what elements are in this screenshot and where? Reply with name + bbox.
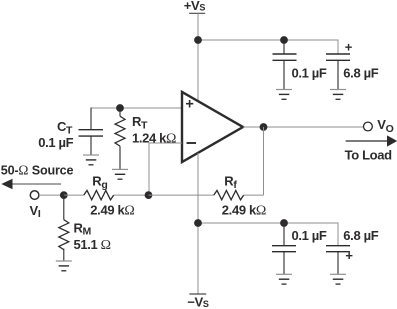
arrow to load (pointing right)	[346, 135, 397, 146]
svg-text:0.1 µF: 0.1 µF	[38, 135, 73, 150]
svg-text:6.8 µF: 6.8 µF	[343, 66, 378, 81]
op-amp U1	[182, 92, 243, 162]
resistor Rf 2.49 k	[214, 190, 244, 199]
capacitor C3 0.1 uF (bottom)	[272, 223, 296, 274]
node junction bottom rail / C3	[280, 219, 288, 227]
wire top rail	[198, 40, 338, 54]
capacitor C1 0.1 uF (top)	[273, 40, 297, 90]
-VS supply symbol	[187, 294, 209, 309]
svg-text:+: +	[345, 39, 353, 54]
svg-text:0.1 µF: 0.1 µF	[292, 228, 327, 243]
wire op-amp negative supply down to -VS	[197, 153, 199, 294]
resistor RM 51.1	[59, 195, 69, 261]
svg-text:To Load: To Load	[345, 147, 393, 162]
svg-text:6.8 µF: 6.8 µF	[343, 228, 378, 243]
wire inverting input	[149, 143, 182, 195]
svg-text:51.1 Ω: 51.1 Ω	[74, 237, 112, 253]
resistor Rg 2.49 k	[84, 190, 114, 199]
svg-text:0.1 µF: 0.1 µF	[292, 66, 327, 81]
terminal VO (open circle)	[364, 122, 373, 131]
svg-text:+VS: +VS	[184, 0, 206, 13]
wire node to Rg	[64, 194, 84, 196]
svg-text:2.49 kΩ: 2.49 kΩ	[90, 202, 134, 218]
ground (C1)	[276, 90, 292, 100]
node junction top rail / supply	[194, 36, 202, 44]
terminal VI (open circle)	[30, 191, 39, 200]
wire output	[243, 126, 363, 128]
svg-text:50-Ω Source: 50-Ω Source	[1, 162, 74, 177]
capacitor CT 0.1 uF	[79, 108, 104, 156]
wire VI to node	[39, 194, 64, 196]
wire bottom rail	[198, 223, 338, 246]
wire +VS vertical to op-amp	[197, 13, 199, 101]
svg-text:2.49 kΩ: 2.49 kΩ	[222, 202, 266, 218]
wire feedback vertical	[263, 127, 265, 195]
arrow 50-Ohm source (pointing left)	[1, 179, 61, 189]
resistor RT 1.24 k	[115, 108, 125, 169]
capacitor C4 6.8 uF (bottom, polarized)	[326, 246, 353, 275]
svg-text:1.24 kΩ: 1.24 kΩ	[132, 130, 176, 146]
ground (C2)	[330, 90, 346, 100]
wire Rf to feedback	[244, 194, 264, 196]
node junction Rg / Rf / -input	[145, 191, 153, 199]
svg-text:+: +	[345, 248, 353, 263]
node junction RT / +input	[116, 104, 124, 112]
wire noninverting input	[91, 107, 182, 109]
ground (C3)	[276, 274, 292, 284]
capacitor C2 6.8 uF (top, polarized)	[326, 39, 353, 89]
+VS supply symbol	[184, 0, 206, 13]
node junction output / feedback	[260, 123, 268, 131]
ground (C4)	[330, 274, 346, 284]
ground (RM)	[56, 261, 72, 271]
ground (CT)	[83, 155, 99, 165]
wire Rg to inverting node	[114, 194, 149, 196]
node junction bottom rail / supply	[194, 219, 202, 227]
node junction VI / RM / Rg	[60, 191, 68, 199]
ground (RT)	[112, 169, 128, 179]
node junction top rail / C1	[280, 36, 288, 44]
svg-text:+: +	[185, 96, 193, 112]
wire inverting node to Rf	[149, 194, 214, 196]
